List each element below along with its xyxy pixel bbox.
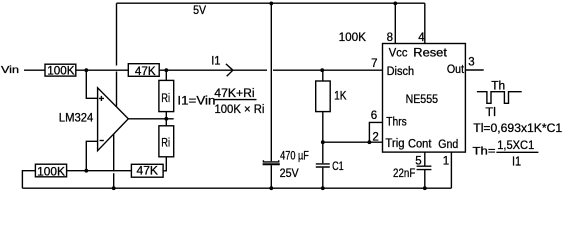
svg-text:LM324: LM324: [59, 112, 94, 124]
wire Ri top tap: [165, 70, 167, 80]
wire pin5 to 22nF: [424, 152, 426, 166]
node junction dot V- ground: [112, 186, 116, 190]
svg-text:47K+Ri: 47K+Ri: [214, 86, 254, 100]
node plus input marker: [99, 96, 104, 101]
wire 22nF to ground: [424, 170, 426, 189]
svg-text:Out: Out: [447, 64, 465, 76]
wire NE555 Out pin 3: [465, 69, 483, 71]
svg-text:1,5XC1: 1,5XC1: [497, 138, 534, 152]
svg-text:Tl=0,693x1K*C1: Tl=0,693x1K*C1: [473, 121, 562, 135]
svg-text:5V: 5V: [193, 3, 207, 17]
wire ground rail: [22, 187, 451, 189]
svg-text:7: 7: [371, 58, 377, 70]
svg-text:6: 6: [371, 110, 377, 122]
node fraction bar: [214, 99, 257, 101]
wire pin4 Reset drop: [424, 3, 426, 43]
wire op-amp V- to ground with hop: [113, 134, 115, 188]
svg-text:Ri: Ri: [161, 93, 170, 105]
svg-text:I1=Vin: I1=Vin: [177, 93, 215, 107]
capacitor 470uF bottom plate: [263, 163, 280, 165]
svg-text:Thrs: Thrs: [386, 117, 407, 129]
node junction dot 470uF ground: [269, 186, 273, 190]
resistor 100K feedback ground leg: [35, 164, 66, 177]
wire op-amp output: [128, 118, 173, 120]
svg-text:Th: Th: [491, 78, 505, 92]
resistor 100K input: [45, 64, 76, 76]
node Th fraction bar: [496, 151, 538, 153]
wire 1K to trig node: [322, 112, 324, 143]
svg-text:I1: I1: [211, 56, 220, 68]
svg-text:Vin: Vin: [1, 64, 19, 76]
node junction dot C1 ground: [321, 186, 325, 190]
wire trig node to NE555 Trig: [323, 141, 383, 143]
resistor Ri lower: [159, 126, 174, 157]
svg-text:Trig: Trig: [385, 138, 404, 150]
svg-text:3: 3: [468, 56, 474, 68]
wire 5V top rail: [117, 2, 425, 4]
node junction dot pin8 rail: [393, 2, 397, 6]
svg-text:Reset: Reset: [413, 47, 447, 59]
svg-text:100K: 100K: [47, 65, 75, 77]
node output waveform: [477, 92, 522, 104]
wire 470uF supply drop: [270, 3, 272, 161]
svg-text:100K: 100K: [37, 166, 65, 178]
svg-text:100K: 100K: [339, 30, 367, 44]
capacitor 470uF supply top plate: [263, 160, 278, 162]
resistor 1K: [316, 81, 331, 112]
node junction dot output Ri: [164, 117, 168, 121]
op-amp U1 LM324 triangle: [98, 88, 129, 151]
node junction dot 1K tap: [320, 68, 324, 72]
resistor 47K feedback: [131, 164, 163, 177]
wire Ri lower to 47K feedback: [163, 157, 166, 171]
svg-text:22nF: 22nF: [393, 166, 416, 180]
wire pin1 to ground: [450, 152, 452, 188]
resistor Ri upper: [159, 80, 174, 111]
svg-text:2: 2: [372, 131, 378, 143]
svg-text:100K × Ri: 100K × Ri: [215, 102, 265, 116]
svg-text:470 µF: 470 µF: [280, 148, 309, 162]
wire ground to bottom 100K: [22, 171, 35, 189]
wire I1 arrow: [226, 64, 233, 76]
wire op-amp minus input: [86, 141, 97, 170]
svg-text:Gnd: Gnd: [438, 139, 458, 151]
svg-text:Cont: Cont: [408, 139, 432, 151]
svg-text:I1: I1: [512, 153, 521, 168]
svg-text:47K: 47K: [135, 66, 156, 78]
wire C1 to ground: [322, 142, 324, 188]
wire to op-amp plus input: [86, 70, 97, 98]
svg-text:Vcc: Vcc: [389, 47, 408, 59]
node junction dot thrs step: [368, 140, 372, 144]
wire 47K to NE555 Disch with hop at 470uF drop: [159, 69, 382, 71]
node junction dot 22nF ground: [423, 186, 427, 190]
node junction dot Ri tap: [164, 68, 168, 72]
node minus input marker: [100, 140, 104, 142]
svg-text:Disch: Disch: [387, 66, 415, 78]
svg-text:4: 4: [418, 32, 425, 44]
svg-text:Th=: Th=: [473, 145, 496, 157]
svg-text:Ri: Ri: [161, 138, 170, 150]
node junction dot noninverting tap: [84, 68, 88, 72]
svg-text:Tl: Tl: [485, 105, 496, 119]
svg-text:8: 8: [387, 32, 393, 44]
wire left 5V drop to op-amp V+ with hop: [116, 3, 118, 107]
wire Vin to R 100K: [24, 69, 45, 71]
svg-text:1K: 1K: [334, 89, 346, 103]
wire 470uF to ground: [270, 165, 272, 188]
wire Ri upper to output: [165, 112, 167, 126]
capacitor 22nF: [417, 166, 432, 169]
node junction dot feedback: [84, 169, 88, 173]
capacitor C1: [316, 164, 330, 167]
IC U2 NE555 body: [383, 44, 466, 153]
svg-text:C1: C1: [332, 159, 344, 173]
svg-text:1: 1: [443, 156, 449, 168]
svg-text:NE555: NE555: [406, 94, 438, 106]
svg-text:25V: 25V: [280, 166, 300, 180]
node junction dot 470uF rail: [269, 2, 273, 6]
wire 1K tap down: [322, 70, 324, 81]
wire 100K to 47K: [76, 69, 129, 71]
resistor 47K top: [128, 64, 159, 77]
node junction dot trig: [321, 140, 325, 144]
wire thrs step: [369, 122, 382, 142]
wire bottom 100K to 47K: [67, 170, 132, 172]
svg-text:47K: 47K: [137, 166, 159, 178]
wire pin8 Vcc drop: [394, 3, 396, 43]
